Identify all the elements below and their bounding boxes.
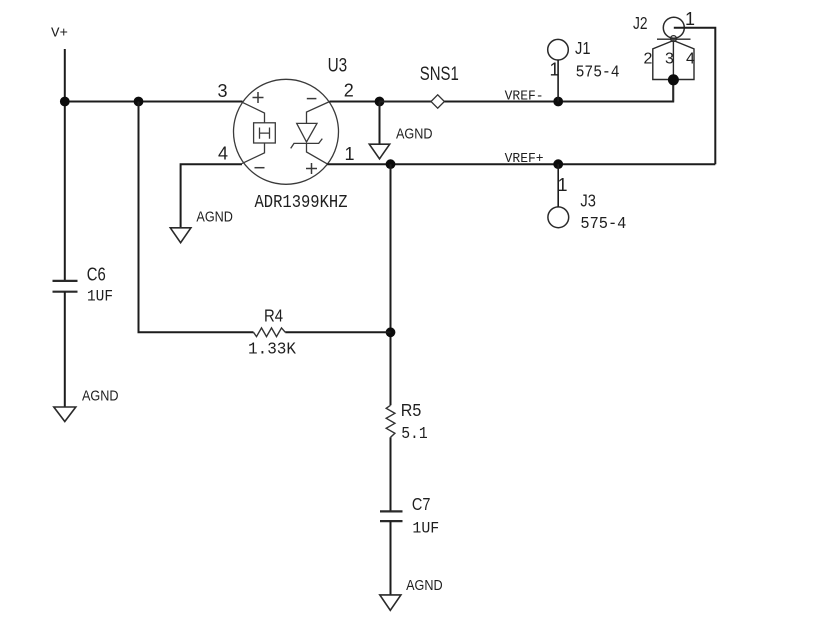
svg-text:1: 1 bbox=[558, 175, 568, 195]
ground AGND below C6 bbox=[54, 407, 76, 422]
wire J3 pin stub bbox=[557, 164, 559, 207]
wire U3 pin 4 to AGND bbox=[181, 164, 242, 227]
U3 internal plus sign at pin 1 bbox=[306, 163, 317, 174]
capacitor C7 bbox=[380, 511, 403, 521]
svg-text:1UF: 1UF bbox=[412, 520, 439, 538]
junction dot VREF+ at J3 bbox=[553, 159, 563, 169]
svg-text:4: 4 bbox=[686, 50, 695, 67]
wire C7 to AGND bbox=[390, 521, 392, 595]
op-amp U3 reference ADR1399KHZ body circle bbox=[234, 79, 339, 184]
connector J1 bbox=[548, 39, 569, 60]
svg-text:1UF: 1UF bbox=[87, 288, 113, 306]
svg-text:AGND: AGND bbox=[82, 387, 119, 404]
svg-text:R5: R5 bbox=[401, 400, 422, 420]
svg-text:575-4: 575-4 bbox=[576, 64, 620, 83]
svg-text:J3: J3 bbox=[580, 191, 596, 211]
J2 small inner circle bbox=[671, 36, 677, 42]
wire feedback branch horizontal to R4 bbox=[138, 331, 254, 333]
U3 internal letter H strokes bbox=[260, 128, 270, 139]
wire VREF+ from U3 pin 1 to riser bbox=[327, 163, 715, 165]
svg-text:1: 1 bbox=[550, 60, 560, 80]
svg-text:1: 1 bbox=[345, 144, 355, 164]
svg-text:U3: U3 bbox=[328, 55, 348, 77]
wire VREF+ branch down to R4 junction and R5 bbox=[390, 164, 392, 405]
node SNS1 diamond bbox=[431, 95, 444, 108]
svg-text:1: 1 bbox=[685, 9, 695, 29]
U3 internal minus sign at pin 4 bbox=[255, 167, 265, 169]
resistor R5 bbox=[386, 405, 395, 437]
junction dot at J2 shield bbox=[668, 74, 679, 85]
svg-text:3: 3 bbox=[665, 50, 674, 67]
svg-text:V+: V+ bbox=[51, 26, 68, 42]
svg-text:C7: C7 bbox=[412, 494, 431, 514]
U3 internal minus sign at pin 2 bbox=[307, 98, 317, 100]
junction dot VREF+ at R branch bbox=[386, 159, 396, 169]
J2 shield pentagon right side (pin 4) bbox=[673, 41, 694, 80]
junction dot at feedback branch bbox=[134, 97, 144, 107]
resistor R4 bbox=[254, 328, 286, 337]
svg-text:AGND: AGND bbox=[406, 577, 443, 594]
U3 internal heater symbol lead from pin 3 bbox=[242, 102, 265, 123]
svg-text:3: 3 bbox=[218, 81, 228, 101]
U3 internal zener diode triangle bbox=[297, 123, 317, 142]
connector J2 coax circle bbox=[663, 17, 684, 38]
svg-text:2: 2 bbox=[644, 50, 653, 67]
svg-text:575-4: 575-4 bbox=[580, 215, 626, 234]
wire J1 pin stub bbox=[557, 60, 559, 102]
U3 internal zener lead to pin 1 bbox=[307, 143, 328, 164]
wire AGND stub from pin 2 junction bbox=[379, 102, 381, 145]
wire C6 to AGND bbox=[64, 292, 66, 407]
junction dot R4/R5 bbox=[386, 327, 396, 337]
J2 shield pentagon left side (pin 2) bbox=[653, 41, 674, 80]
U3 internal zener lead from pin 2 bbox=[307, 102, 329, 124]
wire R4 to junction bbox=[285, 331, 390, 333]
svg-text:ADR1399KHZ: ADR1399KHZ bbox=[255, 193, 348, 213]
wire R5 to C7 bbox=[390, 437, 392, 511]
wire U3 pin 2 to junction bbox=[330, 101, 380, 103]
junction dot at U3 pin 2 bbox=[375, 97, 385, 107]
U3 internal heater lead to pin 4 bbox=[242, 143, 265, 164]
capacitor C6 bbox=[53, 281, 78, 292]
wire V+ vertical to C6 bbox=[64, 49, 66, 281]
svg-text:2: 2 bbox=[344, 81, 354, 101]
J2 center pin 3 wire bbox=[672, 41, 674, 102]
svg-text:4: 4 bbox=[218, 144, 228, 164]
svg-text:J2: J2 bbox=[633, 13, 648, 33]
svg-text:AGND: AGND bbox=[396, 125, 433, 142]
junction dot at J1 bbox=[553, 97, 563, 107]
junction dot at V+ rail bbox=[60, 97, 70, 107]
svg-text:AGND: AGND bbox=[196, 209, 233, 226]
U3 internal zener cathode bar with bent tails bbox=[291, 139, 323, 149]
wire VREF- from SNS1 to J2 shield bbox=[444, 80, 673, 102]
U3 internal plus sign at pin 3 bbox=[253, 92, 264, 103]
ground AGND at pin 2 bbox=[369, 144, 389, 159]
svg-text:SNS1: SNS1 bbox=[420, 64, 459, 85]
wire top horizontal V+ to U3 pin 3 bbox=[65, 101, 243, 103]
wire J2 pin 1 to VREF+ riser bbox=[674, 28, 716, 164]
svg-text:1.33K: 1.33K bbox=[248, 340, 297, 359]
ground AGND at pin 4 bbox=[170, 228, 191, 243]
svg-text:C6: C6 bbox=[87, 263, 106, 284]
wire feedback branch vertical bbox=[138, 102, 140, 333]
wire junction to SNS1 bbox=[380, 101, 432, 103]
U3 internal heater box H bbox=[254, 123, 276, 143]
svg-text:R4: R4 bbox=[264, 306, 283, 326]
svg-text:5.1: 5.1 bbox=[401, 425, 428, 444]
svg-text:J1: J1 bbox=[575, 38, 591, 58]
ground AGND below C7 bbox=[380, 595, 401, 610]
J2 shield bar bbox=[657, 38, 691, 40]
connector J3 bbox=[548, 207, 569, 228]
